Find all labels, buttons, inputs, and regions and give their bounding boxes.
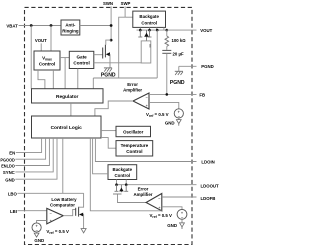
svg-text:PGND: PGND	[201, 64, 213, 69]
pin VBAT	[6, 23, 61, 28]
block Backgate Control 1	[133, 11, 166, 27]
svg-text:GND: GND	[34, 238, 44, 243]
wire Control Logic to LBO	[62, 138, 64, 193]
wire FB line	[149, 93, 197, 95]
LDO bulk diode arrow	[119, 185, 124, 193]
svg-text:Control: Control	[39, 62, 55, 67]
op-amp Error Amplifier 2	[133, 186, 161, 210]
capacitor 20uF	[162, 50, 184, 94]
wire Regulator to Control Logic	[70, 103, 72, 116]
svg-text:LDOFB: LDOFB	[201, 196, 216, 201]
svg-text:Amplifier: Amplifier	[133, 192, 152, 197]
node LDO rail dots	[115, 183, 118, 186]
LDO pass FET channel bar	[113, 193, 122, 195]
block Oscillator	[116, 126, 151, 136]
block Anti-Ringing	[61, 20, 80, 35]
wire LDOIN to Control Logic	[95, 138, 196, 162]
block Control Logic	[32, 116, 102, 138]
wire LDOOUT rail	[117, 184, 197, 186]
transistor N-channel power switch	[103, 40, 111, 68]
svg-text:FB: FB	[199, 92, 205, 97]
backgate bulk contacts T-bars	[138, 30, 151, 37]
svg-text:Temperature: Temperature	[121, 143, 149, 148]
pin VOUT	[167, 28, 213, 33]
block Gate Control	[69, 51, 94, 68]
svg-text:Control: Control	[114, 173, 130, 178]
svg-text:VBAT: VBAT	[6, 23, 18, 28]
svg-text:Amplifier: Amplifier	[123, 88, 142, 93]
ground LBO NMOS source	[81, 229, 86, 233]
svg-text:Backgate: Backgate	[113, 167, 133, 172]
ground GND 1	[165, 118, 181, 126]
svg-text:Regulator: Regulator	[56, 94, 79, 100]
wire Gate Control down to Regulator	[77, 69, 79, 89]
svg-text:SWP: SWP	[121, 1, 131, 6]
wire VBAT down to Vmax Control	[50, 26, 52, 52]
svg-text:Control: Control	[126, 149, 142, 154]
resistor 100k	[165, 30, 186, 50]
pin SWP	[121, 1, 131, 17]
svg-text:LBI: LBI	[10, 209, 17, 214]
block Temperature Control	[116, 141, 153, 156]
wire LDOFB line	[162, 196, 197, 198]
wire VOUT internal rail	[137, 29, 167, 31]
wire comparator output to LBO NMOS gate	[63, 209, 75, 215]
node rail dots	[139, 29, 142, 32]
svg-text:VOUT: VOUT	[35, 38, 47, 43]
svg-text:Control: Control	[73, 61, 89, 66]
wire SWP to backgate left	[119, 17, 125, 78]
svg-text:SYNC: SYNC	[3, 170, 15, 175]
svg-text:GND: GND	[165, 120, 175, 125]
svg-text:GND: GND	[167, 223, 177, 228]
svg-text:Gate: Gate	[76, 54, 87, 59]
IC boundary dashed box	[25, 7, 193, 244]
wire Gate Control to NMOS gate	[94, 54, 103, 56]
wire error amp 2 output to pass FET gate	[118, 195, 147, 203]
pins EN PGOOD ENLDO SYNC GND left	[9, 138, 41, 156]
svg-text:VOUT: VOUT	[200, 28, 212, 33]
bulk diode arrow up	[144, 30, 149, 41]
wire Gate Control to PMOS gate	[94, 62, 141, 64]
wire Control Logic to Temperature Control	[101, 138, 116, 149]
ground GND 3	[34, 232, 44, 243]
svg-text:Control Logic: Control Logic	[51, 125, 83, 131]
wire Control Logic to Oscillator	[101, 130, 116, 132]
wire Vmax Control pin2 to Regulator	[52, 70, 54, 89]
wire Control Logic to Backgate Control 2	[93, 138, 108, 174]
svg-text:PGOOD: PGOOD	[0, 157, 14, 162]
wire VBAT down to Regulator	[30, 26, 32, 89]
svg-text:Ringing: Ringing	[62, 28, 79, 33]
block Regulator	[32, 89, 104, 103]
source Vref 3	[32, 221, 69, 236]
transistor P-channel rectifier (gate loop)	[141, 41, 151, 63]
svg-text:Anti-: Anti-	[65, 23, 76, 28]
svg-text:EN: EN	[9, 151, 15, 156]
pin SWN	[103, 1, 113, 40]
wire Vmax Control staircase to Regulator	[38, 70, 45, 89]
wire backgate stubs	[139, 27, 141, 30]
svg-text:Oscillator: Oscillator	[123, 129, 144, 134]
ground PGND right symbol	[170, 66, 185, 86]
node VOUT internal label	[35, 38, 47, 51]
node SWN/NMOS drain junction	[110, 39, 113, 42]
pin PGND right	[179, 64, 214, 69]
wire error amp 1 to vref	[149, 102, 179, 109]
source Vref 1	[146, 109, 183, 119]
LDO pass FET bulk T-bars	[115, 185, 129, 192]
wire mid horizontal rail	[93, 77, 157, 79]
wire Vmax-Gate net branch down to Regulator	[64, 58, 66, 89]
ground GND 2	[167, 219, 184, 229]
node SWN/anti-ringing junction	[110, 24, 113, 27]
comparator Low Battery	[47, 197, 77, 224]
pin LBI	[10, 209, 47, 214]
ground PGND (power NMOS source)	[101, 68, 116, 79]
svg-text:LDOOUT: LDOOUT	[201, 183, 220, 188]
svg-text:SWN: SWN	[103, 1, 113, 6]
op-amp Error Amplifier 1	[123, 82, 149, 109]
svg-text:Error: Error	[127, 82, 138, 87]
wire error amp 2 to vref 2	[162, 207, 182, 210]
wire Vmax Control to Gate Control	[60, 57, 69, 59]
source Vref 2	[149, 209, 186, 219]
wire control logic to error amp 2 bias	[90, 138, 162, 211]
svg-text:Control: Control	[141, 20, 157, 25]
wire error amp 1 output staircase to Control Logic	[95, 101, 133, 116]
node FB junction	[166, 93, 169, 96]
wire mid rail to regulator top	[92, 78, 94, 89]
svg-text:ENLDO: ENLDO	[1, 164, 15, 169]
svg-text:LDOIN: LDOIN	[201, 160, 214, 165]
svg-text:Error: Error	[138, 186, 149, 191]
node VBAT junction to Vmax control	[50, 24, 53, 27]
svg-text:LBO: LBO	[8, 191, 18, 196]
pin LBO	[8, 191, 84, 196]
block Backgate Control 2	[108, 165, 137, 180]
svg-text:PGND: PGND	[170, 80, 185, 86]
wire Anti-Ringing to SWN	[80, 25, 111, 27]
svg-text:GND: GND	[5, 177, 15, 182]
svg-text:Comparator: Comparator	[50, 202, 75, 207]
transistor LBO pulldown NMOS	[76, 193, 84, 228]
wire VOUT rail down to mid rail	[156, 30, 158, 78]
svg-text:100 kΩ: 100 kΩ	[172, 38, 187, 43]
svg-text:PGND: PGND	[101, 72, 116, 78]
svg-text:20 µF: 20 µF	[173, 51, 184, 56]
node VBAT junction to regulator	[30, 24, 33, 27]
block Vmax Control	[34, 51, 60, 70]
svg-text:Backgate: Backgate	[139, 14, 159, 19]
backgate 2 stubs	[116, 180, 118, 185]
